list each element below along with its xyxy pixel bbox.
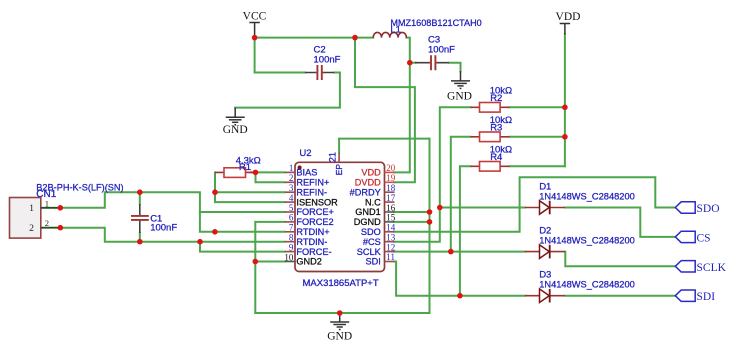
- wire SDO pin14 up and over to SDO flag: [394, 177, 675, 232]
- svg-text:DVDD: DVDD: [355, 178, 381, 188]
- wire R1 left down to REFIN- node: [214, 172, 216, 192]
- svg-text:GND: GND: [223, 124, 248, 136]
- node CN1 pin2: [58, 225, 64, 231]
- svg-text:CN1: CN1: [36, 189, 56, 200]
- svg-text:SDI: SDI: [365, 257, 380, 267]
- svg-text:1: 1: [29, 203, 34, 214]
- svg-text:BIAS: BIAS: [296, 168, 317, 178]
- node REFIN-/R1/ISENSOR: [212, 189, 218, 195]
- wire bottom ground rail: [255, 312, 429, 314]
- U2 pin names left: [296, 168, 338, 267]
- svg-text:RTDIN+: RTDIN+: [296, 227, 329, 237]
- IC U2 MAX31865ATP+T body: [295, 162, 385, 271]
- svg-text:CS: CS: [697, 232, 711, 244]
- wire R3 right to VDD line: [510, 136, 565, 138]
- U2 pin stubs right: [385, 192, 395, 261]
- node GND2 joint: [253, 259, 259, 265]
- wire branch down to FORCE- pin9: [200, 242, 285, 252]
- node CN1 pin1: [58, 205, 64, 211]
- svg-text:VCC: VCC: [243, 11, 267, 23]
- wire C1 top to RTD+ net: [139, 192, 141, 204]
- U2 pin stubs left: [285, 172, 295, 251]
- U2 EP pin stub 21: [338, 153, 340, 162]
- node R2/VDD: [562, 105, 568, 111]
- wire VCC down to C2 left: [255, 38, 305, 73]
- wire GND1 pin16 to ground vertical: [394, 211, 429, 213]
- svg-text:7: 7: [289, 223, 294, 233]
- node DVDD branch: [352, 35, 358, 41]
- junction node dots: [58, 35, 568, 316]
- svg-text:18: 18: [386, 183, 396, 193]
- svg-text:REFIN-: REFIN-: [296, 187, 327, 197]
- wire R2 right to VDD line: [510, 106, 565, 108]
- svg-text:14: 14: [386, 223, 396, 233]
- wire VDD net down to pin20: [394, 63, 410, 173]
- power symbol VCC: [243, 11, 267, 38]
- svg-text:FORCE-: FORCE-: [296, 247, 331, 257]
- diode D2: [525, 245, 565, 259]
- svg-text:13: 13: [386, 233, 396, 243]
- capacitor C3: [415, 55, 449, 70]
- wire C3 right to GND: [449, 63, 461, 72]
- node SCLK pullup: [448, 249, 454, 255]
- wire C3 left lead to junction: [410, 62, 416, 64]
- svg-text:100nF: 100nF: [428, 44, 455, 55]
- svg-text:2: 2: [45, 218, 49, 228]
- wire RTD- net from CN1 pin2 down to pin8 rail: [60, 228, 284, 242]
- svg-text:R2: R2: [490, 93, 502, 104]
- wire GND2 pin10 to rail: [255, 261, 284, 263]
- svg-text:19: 19: [386, 173, 396, 183]
- svg-text:100nF: 100nF: [150, 222, 177, 233]
- wire ground vertical down to bottom rail: [429, 139, 431, 313]
- wire SCLK pin12 to D2 anode: [394, 251, 525, 253]
- svg-text:8: 8: [289, 233, 294, 243]
- svg-text:20: 20: [386, 163, 396, 173]
- diode D3: [525, 289, 565, 303]
- wire inductor output to C3 junction: [406, 38, 409, 63]
- wire R4 right to VDD line: [510, 165, 565, 167]
- wire BIAS junction down to REFIN+ pin2: [256, 172, 285, 182]
- wire FORCE2 pin6 down to GND2 and rail: [255, 222, 284, 313]
- node BIAS/R1: [253, 170, 259, 176]
- wire VDD symbol stem down to R4 row: [564, 34, 566, 166]
- U2 pin names right: [350, 168, 382, 267]
- svg-text:SCLK: SCLK: [697, 262, 727, 274]
- resistor R1: [215, 168, 256, 178]
- svg-text:4: 4: [289, 193, 294, 203]
- svg-text:#DRDY: #DRDY: [350, 187, 381, 197]
- svg-text:21: 21: [328, 152, 338, 162]
- node GND1 joint: [427, 209, 433, 215]
- svg-text:11: 11: [386, 252, 395, 262]
- wire D2 cathode down to SCLK flag: [565, 252, 676, 267]
- power symbol VDD: [556, 11, 581, 34]
- wire EP pad to ground vertical: [339, 139, 429, 153]
- wire C1 bottom to RTD- net: [139, 233, 141, 242]
- svg-text:10: 10: [284, 252, 294, 262]
- wire R2 left down to #CS pin13: [394, 107, 470, 241]
- diode D1: [525, 201, 565, 215]
- svg-text:MAX31865ATP+T: MAX31865ATP+T: [303, 278, 379, 289]
- svg-text:12: 12: [386, 242, 395, 252]
- svg-text:2: 2: [29, 223, 34, 234]
- node D1 branch: [437, 205, 443, 211]
- wire D3 cathode to SDI flag: [565, 295, 676, 297]
- svg-text:N.C: N.C: [365, 197, 381, 207]
- wire BIAS pin1 to R1 with branch to REFIN+: [251, 171, 285, 173]
- wire R4 left down to SDI row: [460, 166, 470, 295]
- node RTD- branch: [197, 239, 203, 245]
- wire DVDD net: VCC junction down, right, down to pin19: [355, 38, 415, 183]
- port flag SDI: [675, 290, 715, 303]
- wire D1 cathode over and down to CS flag: [565, 208, 676, 237]
- svg-text:REFIN+: REFIN+: [296, 178, 329, 188]
- port flag SDO: [675, 202, 719, 215]
- port flag SCLK: [675, 261, 726, 274]
- svg-text:U2: U2: [299, 148, 311, 159]
- svg-text:9: 9: [289, 242, 294, 252]
- inductor L1: [373, 32, 406, 37]
- svg-text:5: 5: [289, 203, 294, 213]
- node R3/VDD: [562, 134, 568, 140]
- svg-text:ISENSOR: ISENSOR: [296, 197, 338, 207]
- svg-text:RTDIN-: RTDIN-: [296, 237, 327, 247]
- svg-text:SDI: SDI: [697, 291, 716, 303]
- U2 pin numbers left: [284, 163, 294, 262]
- node C1 bottom: [137, 239, 143, 245]
- wire SDI pin11 down and right to D3 anode: [394, 262, 525, 296]
- svg-text:FORCE+: FORCE+: [296, 207, 334, 217]
- svg-text:1N4148WS_C2848200: 1N4148WS_C2848200: [539, 191, 635, 201]
- node DGND joint: [427, 219, 433, 225]
- svg-text:R1: R1: [239, 162, 251, 173]
- svg-text:#CS: #CS: [363, 237, 381, 247]
- svg-text:1N4148WS_C2848200: 1N4148WS_C2848200: [539, 235, 635, 245]
- wire REFIN- pin3 to node: [215, 191, 285, 193]
- ground symbol under C2: [226, 108, 245, 125]
- svg-text:FORCE2: FORCE2: [296, 217, 333, 227]
- resistor R2: [470, 103, 509, 113]
- svg-text:L1: L1: [390, 25, 401, 36]
- svg-text:R4: R4: [490, 152, 502, 163]
- node C3/VDD branch: [407, 60, 413, 66]
- capacitor C1: [131, 204, 149, 233]
- wire R3 left down to SCLK row: [451, 137, 471, 252]
- svg-text:MMZ1608B121CTAH0: MMZ1608B121CTAH0: [390, 18, 481, 28]
- ground symbol under C3: [451, 71, 470, 88]
- svg-text:GND2: GND2: [296, 257, 322, 267]
- wire RTDIN+ pin7 to joint: [215, 231, 285, 233]
- svg-text:15: 15: [386, 213, 396, 223]
- svg-text:1N4148WS_C2848200: 1N4148WS_C2848200: [539, 280, 635, 290]
- svg-text:GND1: GND1: [355, 207, 381, 217]
- svg-text:1: 1: [289, 163, 294, 173]
- svg-text:3: 3: [289, 183, 294, 193]
- wire node down to ISENSOR pin4: [215, 192, 285, 202]
- wire CS branch from pullup to D1 anode: [440, 207, 525, 209]
- resistor R4: [470, 162, 509, 172]
- svg-text:6: 6: [289, 213, 294, 223]
- svg-text:VDD: VDD: [361, 168, 381, 178]
- svg-text:SDO: SDO: [361, 227, 381, 237]
- svg-text:SCLK: SCLK: [357, 247, 382, 257]
- node RTDIN+ joint: [212, 229, 218, 235]
- node bottom GND: [337, 310, 343, 316]
- wire DGND pin15 to ground vertical: [394, 221, 429, 223]
- svg-text:SDO: SDO: [697, 203, 720, 215]
- resistor R3: [470, 132, 509, 142]
- connector CN1: [10, 198, 61, 239]
- node C1 top: [137, 189, 143, 195]
- svg-text:16: 16: [386, 203, 396, 213]
- ground symbol bottom: [330, 313, 349, 330]
- svg-text:100nF: 100nF: [314, 54, 341, 65]
- svg-text:2: 2: [289, 173, 294, 183]
- svg-text:R3: R3: [490, 123, 502, 134]
- svg-text:GND: GND: [447, 91, 472, 103]
- svg-text:EP: EP: [334, 164, 344, 176]
- wire VCC rail to inductor: [255, 37, 374, 39]
- wire RTD+ net from CN1 pin1 up and over to RTDIN+: [60, 192, 215, 232]
- node VCC junction: [252, 35, 258, 41]
- svg-text:17: 17: [386, 193, 396, 203]
- node SDI pullup: [457, 293, 463, 299]
- svg-text:VDD: VDD: [556, 11, 581, 23]
- wire C2 right to GND: [235, 73, 340, 108]
- U2 pin numbers right: [386, 163, 396, 262]
- svg-text:GND: GND: [327, 330, 352, 342]
- wire FORCE+ pin5 to RTD+ vertical: [200, 211, 285, 213]
- svg-text:DGND: DGND: [354, 217, 381, 227]
- port flag CS: [675, 231, 710, 244]
- capacitor C2: [305, 65, 334, 80]
- U2 pin 1 marker dot: [298, 166, 302, 170]
